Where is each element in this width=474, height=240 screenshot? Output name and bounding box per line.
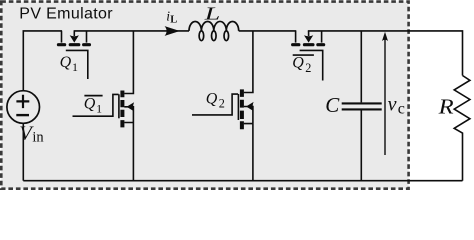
body arrow stem + source link (124, 107, 133, 123)
drain stub (61, 31, 63, 42)
voltage arrow vc (382, 32, 388, 155)
channel dashes (293, 43, 324, 46)
label Q1bar (84, 96, 103, 116)
svg-text:L: L (203, 4, 220, 24)
body arrow stem (73, 31, 75, 36)
channel dashes (240, 89, 244, 129)
gate plate (66, 50, 88, 79)
wire: Vin bottom to bottom rail (22, 123, 24, 181)
drain stub and wire up to rail (124, 31, 133, 94)
drain stub and wire up to rail (244, 31, 253, 93)
current arrow iL on rail (165, 26, 180, 36)
drain stub (295, 31, 297, 42)
resistor R (454, 76, 470, 181)
bottom plate (342, 108, 382, 110)
source stub (321, 31, 323, 42)
bottom rail wire (23, 180, 462, 182)
channel dashes (58, 43, 89, 46)
PV emulator dashed boundary box (1, 2, 408, 189)
source wire down to bottom rail (252, 124, 254, 181)
capacitor C (342, 31, 382, 181)
gate plate (118, 94, 120, 118)
source wire down to bottom rail (132, 123, 134, 181)
transistor Q2bar (top-right horizontal MOSFET) (293, 31, 324, 80)
transistor Q1bar (left vertical MOSFET) (73, 31, 135, 181)
transistor Q1 (top-left horizontal MOSFET) (58, 31, 89, 79)
body arrow stem + source link (244, 107, 253, 124)
top rail wire: inductor to Q2bar (239, 30, 297, 32)
cap top wire (360, 31, 362, 103)
source stub (86, 31, 88, 42)
transistor Q2 (center vertical MOSFET) (192, 31, 254, 181)
svg-text:C: C (325, 93, 340, 117)
svg-text:R: R (437, 95, 453, 119)
inductor L (189, 21, 239, 40)
body arrow stem (308, 31, 310, 36)
wire: Vin top to top rail corner (23, 31, 62, 91)
top plate (342, 102, 382, 104)
body arrow head (127, 102, 135, 111)
channel dashes (120, 91, 124, 128)
gate plate (300, 50, 323, 80)
gate plate (237, 94, 239, 120)
gate lead (192, 94, 238, 115)
body arrow head (246, 102, 254, 111)
body arrow head (70, 35, 79, 42)
label Q2bar (292, 55, 314, 75)
gate lead (73, 94, 119, 116)
body arrow head (304, 35, 313, 42)
top rail wire: Q1 arrow to inductor (74, 30, 189, 32)
top rail wire: Q2bar to right corner, down to R (308, 31, 463, 76)
cap bottom wire (360, 111, 362, 181)
svg-text:PV Emulator: PV Emulator (19, 6, 113, 23)
voltage source Vin (7, 91, 40, 124)
